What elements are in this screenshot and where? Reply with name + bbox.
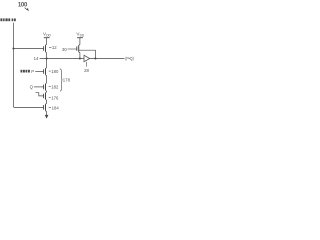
wire: clock to PMOS 12 gate [13,48,43,50]
transistor Q12 (precharge PMOS) [45,45,47,52]
svg-text:DD: DD [46,34,51,38]
svg-text:182: 182 [51,84,59,89]
svg-text:14: 14 [34,56,39,61]
svg-text:12: 12 [52,45,57,50]
VDD supply (right) [76,32,85,38]
brace for logic network 178 [60,69,63,91]
svg-text:30: 30 [62,47,67,52]
node: clock to PMOS 12 gate junction [12,48,14,50]
wire: node 14 horizontal [40,58,84,60]
svg-text:100: 100 [18,3,28,9]
svg-text:P: P [31,69,34,74]
label 184 [49,106,51,108]
svg-text:176: 176 [51,96,59,101]
wire: VDD to PMOS 12 source [46,38,47,46]
wire: P to gate of 180 [35,71,43,73]
svg-text:28: 28 [84,68,89,73]
label 30 [62,47,67,52]
svg-text:(P•Q): (P•Q) [125,56,134,61]
label 28 [85,62,87,67]
label 180 [49,70,51,72]
svg-text:178: 178 [63,77,71,82]
wire: gate stub of 176 [36,93,44,96]
wire: keeper gate feedback loop [79,50,95,58]
label 12 [49,46,51,48]
wire: VDD to keeper PMOS source [79,38,80,46]
transistor Q184 (NMOS clock footer) [45,104,47,111]
clock input label (tiny glyph blobs) [0,18,15,21]
ground (down arrow) [45,115,49,119]
node 14 label [34,56,39,61]
transistor Q176 (NMOS) [45,93,47,100]
wire: PMOS 12 drain to node 14 [46,52,47,59]
wire: 184 source to ground arrow [46,111,47,116]
wire: node 14 down to pulldown stack [46,59,47,69]
svg-text:Q: Q [30,85,34,90]
wire: 182 source to 176 drain [46,90,47,93]
transistor Q180 (NMOS input P) [45,68,47,74]
wire: 176 source to 184 drain [46,99,47,104]
figure reference 100 [18,3,28,9]
label 176 [49,97,51,99]
label 178 [63,77,71,82]
label 182 [49,85,51,87]
VDD supply (left) [43,32,52,38]
input Q label [30,85,34,90]
op-amp U28 (output inverter) [84,55,90,61]
leader arrow for 100 [25,8,28,10]
wire: keeper drain to node [79,52,80,59]
input P label word blobs [21,70,30,73]
wire: output [90,58,125,60]
svg-text:184: 184 [52,105,60,110]
transistor Q30 (keeper PMOS) [78,45,80,52]
clock wire (vertical) [13,23,43,108]
node output label (P.Q) [125,56,134,61]
wire: 180 source to 182 drain [46,75,47,84]
node 14 junction [46,58,48,60]
transistor Q182 (NMOS input Q) [45,84,47,91]
svg-text:180: 180 [51,69,59,74]
wire: Q to gate of 182 [34,86,44,88]
svg-text:DD: DD [80,34,85,38]
